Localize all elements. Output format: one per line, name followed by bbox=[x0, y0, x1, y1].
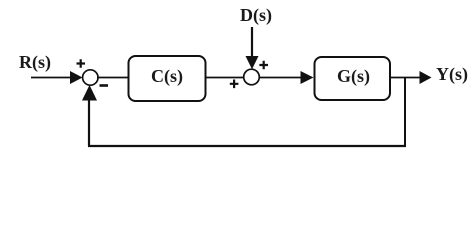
plus sign at S2 top input bbox=[259, 61, 268, 70]
svg-text:R(s): R(s) bbox=[19, 52, 51, 73]
arrowhead D(s) into S2 top bbox=[246, 56, 259, 69]
svg-text:Y(s): Y(s) bbox=[436, 64, 468, 85]
arrowhead into summing junction S1 bbox=[70, 71, 83, 84]
arrowhead feedback into S1 bottom bbox=[82, 85, 97, 101]
svg-text:D(s): D(s) bbox=[240, 5, 272, 26]
wire S1 to C(s) bbox=[97, 77, 129, 79]
wire D(s) vertical bbox=[251, 27, 253, 58]
wire C(s) to summing junction S2 bbox=[205, 77, 244, 79]
wire feedback bottom horizontal bbox=[88, 145, 406, 147]
wire S2 to G(s) bbox=[260, 77, 303, 79]
arrowhead into G(s) bbox=[301, 71, 314, 84]
svg-text:G(s): G(s) bbox=[337, 66, 370, 87]
summing junction S2 bbox=[244, 69, 260, 85]
block C(s) bbox=[129, 56, 206, 101]
wire feedback vertical right from tap bbox=[404, 78, 406, 147]
wire R(s) input line bbox=[31, 77, 72, 79]
summing junction S1 bbox=[83, 70, 98, 85]
block G(s) bbox=[315, 57, 391, 100]
svg-text:C(s): C(s) bbox=[151, 66, 183, 87]
plus sign at S1 input bbox=[77, 59, 86, 67]
wire G(s) output bbox=[390, 77, 421, 79]
wire feedback vertical left bbox=[88, 100, 90, 147]
arrowhead output to Y(s) bbox=[420, 71, 432, 84]
minus sign at S1 feedback input bbox=[100, 84, 109, 87]
plus sign at S2 left input bbox=[230, 80, 239, 89]
